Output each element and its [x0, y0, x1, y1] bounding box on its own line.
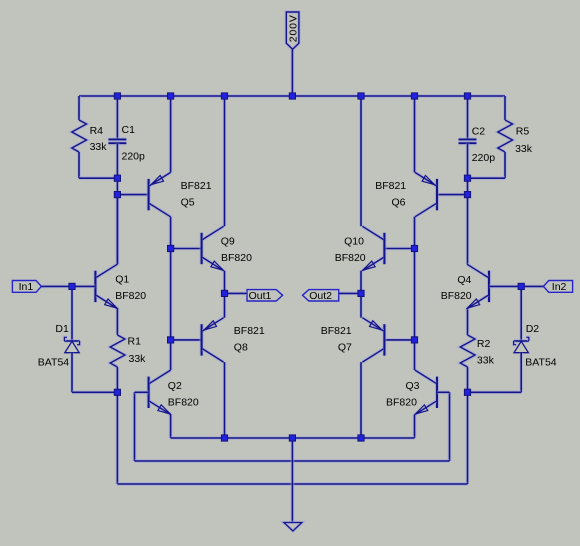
junction bias node left	[114, 389, 120, 395]
wire bias bus	[117, 482, 467, 486]
wire C2 bottom	[466, 143, 470, 178]
wire Q7 base wire	[384, 338, 414, 342]
svg-text:BF820: BF820	[386, 397, 417, 409]
wire Q8 collector rail	[223, 362, 227, 438]
junction In1 node	[69, 283, 75, 289]
svg-text:R1: R1	[128, 336, 142, 348]
wire R1 bottom	[116, 367, 120, 392]
wire R4 to node	[79, 176, 117, 180]
junction bus-200V	[289, 93, 295, 99]
transistor Q5	[146, 179, 150, 210]
wire D2 bottom	[519, 353, 523, 393]
junction nodeA-RC	[114, 175, 120, 181]
svg-text:BF820: BF820	[441, 290, 472, 302]
junction bus-C1	[114, 93, 120, 99]
junction emitter bus left	[221, 435, 227, 441]
wire 200V to bus	[290, 49, 294, 96]
junction bus-C2	[464, 93, 470, 99]
svg-text:BF821: BF821	[234, 325, 265, 337]
wire D1 top	[70, 286, 74, 341]
svg-text:220p: 220p	[472, 152, 496, 164]
wire top supply bus	[79, 94, 505, 98]
junction Q7 base node	[411, 337, 417, 343]
junction nodeF-Q6b	[464, 192, 470, 198]
port Out1	[247, 290, 283, 301]
port In2	[543, 281, 572, 293]
junction nodeF-RC	[464, 175, 470, 181]
port In1	[12, 281, 41, 293]
wire Q2 base stub	[135, 390, 149, 394]
diode D1	[64, 339, 79, 343]
svg-text:BF821: BF821	[181, 180, 212, 192]
svg-text:Out1: Out1	[249, 290, 272, 302]
wire D2 top	[519, 286, 523, 341]
wire Q10 base wire	[384, 247, 414, 251]
junction emitter bus right	[358, 435, 364, 441]
wire Q5 base wire	[117, 193, 148, 197]
junction In2 node	[518, 283, 524, 289]
resistor R4	[72, 120, 87, 152]
wire node A rail	[116, 178, 120, 264]
transistor Q2	[146, 377, 150, 408]
svg-text:BF820: BF820	[335, 252, 366, 264]
wire Q4 emitter rail	[466, 309, 470, 335]
wire Out1 stub	[225, 291, 248, 295]
wire Q10 collector rail	[359, 96, 363, 226]
svg-text:33k: 33k	[90, 141, 108, 153]
wire Q9 base wire	[171, 247, 202, 251]
junction bus-Q10c	[358, 93, 364, 99]
svg-text:BF820: BF820	[221, 252, 252, 264]
transistor Q9	[199, 233, 203, 264]
wire Q4 base to In2	[489, 284, 543, 288]
junction bus-Q9c	[221, 93, 227, 99]
capacitor C2	[459, 137, 477, 141]
wire Out2 stub	[339, 291, 361, 295]
junction Q9 base node	[168, 245, 174, 251]
svg-text:200V: 200V	[288, 14, 300, 42]
wire Q3 base stub	[437, 390, 450, 394]
wire Q6 emitter rail	[413, 96, 417, 172]
power flag 200V	[286, 12, 299, 49]
wire D1 to node	[72, 390, 117, 394]
wire R5 top	[503, 96, 507, 120]
transistor Q6	[435, 179, 439, 210]
svg-text:R5: R5	[516, 126, 530, 138]
wire ground wire	[290, 438, 294, 523]
junction bus-Q5e	[168, 93, 174, 99]
wire bias rail left	[116, 392, 120, 484]
wire R5 bottom	[503, 152, 507, 178]
wire Q7 collector rail	[359, 362, 363, 438]
wire R2 bottom	[466, 367, 470, 392]
junction Q8 base node	[168, 337, 174, 343]
wire Q8 base wire	[171, 338, 202, 342]
svg-text:BF820: BF820	[168, 397, 199, 409]
transistor Q7	[382, 324, 386, 355]
capacitor C1	[108, 137, 126, 141]
wire Q5 emitter rail	[169, 96, 173, 172]
svg-text:C2: C2	[472, 126, 486, 138]
svg-text:BF821: BF821	[321, 325, 352, 337]
wire R5 to node	[468, 176, 506, 180]
wire node F rail	[466, 178, 470, 264]
svg-text:R2: R2	[477, 338, 491, 350]
wire In1 to Q1 base	[41, 284, 95, 288]
resistor R1	[110, 335, 125, 367]
wire Q9 collector rail	[223, 96, 227, 226]
wire Q6 base wire	[437, 193, 468, 197]
diode D2	[514, 339, 529, 343]
junction bus-Q6e	[411, 93, 417, 99]
svg-text:Q9: Q9	[221, 236, 235, 248]
transistor Q10	[382, 233, 386, 264]
wire Q5 collector rail	[169, 217, 173, 370]
svg-text:D2: D2	[526, 323, 540, 335]
wire Q9 emitter rail	[223, 271, 227, 318]
wire Q3 base drop	[448, 392, 452, 461]
wire R4 bottom	[77, 152, 81, 178]
svg-text:In1: In1	[19, 281, 34, 293]
wire Q1 emitter rail	[116, 309, 120, 335]
port Out2	[303, 290, 339, 301]
svg-text:BF820: BF820	[115, 290, 146, 302]
svg-text:Q6: Q6	[392, 196, 406, 208]
svg-text:Q3: Q3	[406, 380, 420, 392]
transistor Q8	[199, 324, 203, 355]
wire Q10 emitter rail	[359, 271, 363, 318]
wire D1 bottom	[70, 353, 74, 393]
svg-text:Q7: Q7	[338, 341, 352, 353]
svg-text:Q10: Q10	[344, 236, 364, 248]
svg-text:BAT54: BAT54	[38, 357, 69, 369]
svg-text:BAT54: BAT54	[525, 357, 556, 369]
wire Q6 collector rail	[413, 217, 417, 370]
transistor Q4	[487, 271, 491, 302]
svg-text:33k: 33k	[515, 143, 533, 155]
transistor Q3	[435, 377, 439, 408]
svg-text:Q1: Q1	[115, 273, 129, 285]
wire Q3 emitter drop	[413, 415, 417, 439]
transistor Q1	[93, 271, 97, 302]
svg-text:Q5: Q5	[181, 196, 195, 208]
wire C1 top	[116, 96, 120, 139]
junction emitter bus gnd	[289, 435, 295, 441]
resistor R5	[498, 120, 513, 152]
wire Q2 base drop	[133, 392, 137, 461]
svg-text:In2: In2	[552, 281, 567, 293]
svg-text:33k: 33k	[477, 355, 495, 367]
ground	[284, 523, 302, 532]
junction bias node right	[464, 389, 470, 395]
svg-text:Out2: Out2	[309, 290, 332, 302]
svg-text:D1: D1	[55, 323, 69, 335]
svg-text:Q8: Q8	[234, 341, 248, 353]
resistor R2	[460, 335, 475, 367]
svg-text:BF821: BF821	[375, 180, 406, 192]
junction Out1 node	[221, 290, 227, 296]
svg-text:R4: R4	[90, 125, 104, 137]
svg-text:33k: 33k	[129, 353, 147, 365]
wire R4 top	[77, 96, 81, 120]
svg-text:Q4: Q4	[457, 274, 471, 286]
wire Q1 collector link	[116, 195, 120, 265]
wire bias rail right	[466, 392, 470, 484]
svg-text:220p: 220p	[122, 151, 146, 163]
wire emitter bus	[171, 436, 415, 440]
svg-text:C1: C1	[122, 124, 136, 136]
svg-text:Q2: Q2	[168, 380, 182, 392]
wire C2 top	[466, 96, 470, 139]
wire C1 bottom	[116, 143, 120, 178]
junction nodeA-Q5b	[114, 192, 120, 198]
wire base bus	[135, 459, 450, 463]
junction Out2 node	[358, 290, 364, 296]
junction Q10 base node	[411, 245, 417, 251]
wire Q2 emitter drop	[169, 415, 173, 439]
wire node to D2	[468, 390, 522, 394]
